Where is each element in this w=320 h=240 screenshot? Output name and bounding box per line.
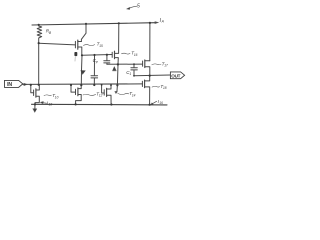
svg-text:17: 17 <box>164 64 168 68</box>
svg-text:1: 1 <box>130 72 132 76</box>
svg-text:14: 14 <box>132 93 136 97</box>
svg-text:IN: IN <box>7 82 12 88</box>
svg-text:16: 16 <box>159 101 163 105</box>
svg-text:OUT: OUT <box>171 73 180 78</box>
svg-text:18: 18 <box>49 102 53 106</box>
svg-text:15: 15 <box>99 44 103 48</box>
svg-text:16: 16 <box>134 53 138 57</box>
svg-text:18: 18 <box>163 86 167 90</box>
svg-text:12: 12 <box>99 94 103 98</box>
svg-text:10: 10 <box>55 95 59 99</box>
svg-text:A: A <box>161 20 165 24</box>
svg-text:5: 5 <box>137 3 140 9</box>
svg-text:B: B <box>49 31 52 35</box>
svg-text:P: P <box>96 60 99 64</box>
